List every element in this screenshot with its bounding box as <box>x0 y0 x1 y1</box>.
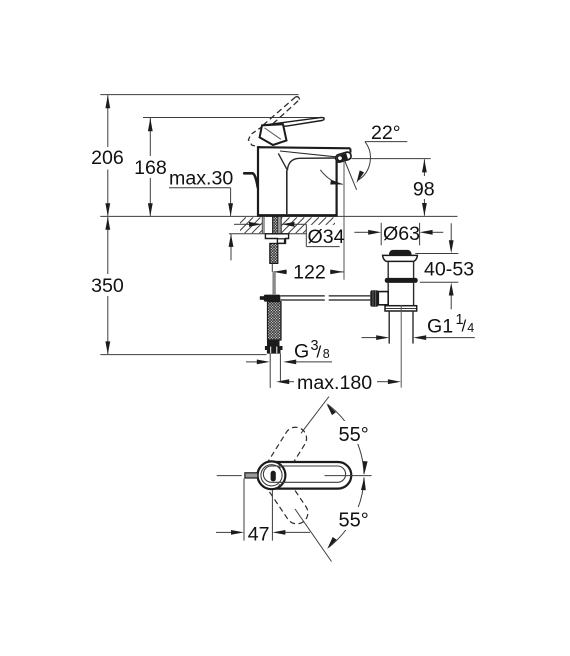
dim 40-53 <box>415 253 458 255</box>
svg-text:max.30: max.30 <box>169 168 233 190</box>
55 deg arc upper <box>328 405 364 475</box>
pop-up rod lever at faucet <box>244 173 258 187</box>
dim 206 vertical with arrows <box>107 95 109 147</box>
faucet body outline <box>258 147 350 215</box>
deck hatching <box>230 217 348 233</box>
drain body lower <box>387 283 389 306</box>
22 deg annotation <box>365 141 408 143</box>
top view right centerline <box>325 475 372 477</box>
dim 168 vertical with arrows <box>149 118 151 156</box>
O34 leader box <box>307 225 340 246</box>
dim max.180 <box>276 379 289 384</box>
top view 55deg leader lower <box>295 509 332 562</box>
spout vertical centerline <box>343 161 345 280</box>
svg-text:4: 4 <box>467 321 474 335</box>
svg-text:122: 122 <box>293 262 326 284</box>
svg-text:350: 350 <box>91 275 124 297</box>
top view cartridge mark <box>271 471 276 482</box>
svg-text:55°: 55° <box>339 510 369 532</box>
spout left underside edge <box>278 153 287 170</box>
dashed handle rotated up <box>261 423 311 485</box>
drain flange <box>383 255 418 261</box>
dashed handle base rotated outline <box>248 127 262 148</box>
top view handle inner <box>263 466 345 482</box>
dim 350 bottom reference line <box>100 354 266 356</box>
dim 350 vertical <box>107 217 109 274</box>
svg-text:47: 47 <box>248 523 270 545</box>
countertop deck top line <box>100 215 457 217</box>
top view 55deg leader upper <box>301 397 329 434</box>
top view handle outer <box>258 462 352 489</box>
drain lever boss <box>378 292 388 305</box>
dim max.30 lower arrow below deck <box>230 234 232 260</box>
22 deg arc left <box>320 170 342 185</box>
svg-text:8: 8 <box>323 347 330 361</box>
G3/8 arrows <box>246 361 257 363</box>
svg-text:98: 98 <box>413 178 435 200</box>
drain centerline <box>400 305 402 388</box>
faucet body base band <box>257 214 338 217</box>
svg-text:max.180: max.180 <box>297 372 372 394</box>
dim 98 <box>352 158 431 160</box>
threaded shank below deck <box>273 216 278 233</box>
hose braided upper <box>270 243 278 263</box>
drain lever knurled knob <box>370 290 378 307</box>
label 55 bottom <box>337 507 372 530</box>
rod pivot at hose <box>264 295 281 302</box>
aerator at spout tip <box>335 151 352 163</box>
top view base circle <box>258 461 286 489</box>
svg-text:40-53: 40-53 <box>424 258 474 280</box>
svg-text:206: 206 <box>91 147 124 169</box>
dim 122 <box>273 271 287 273</box>
top view pop-up knob <box>245 473 258 478</box>
drain collar <box>385 306 417 311</box>
top view inner circle <box>261 465 282 486</box>
hose thin segment <box>271 263 273 272</box>
dim line 168 top reference <box>143 117 325 119</box>
svg-text:168: 168 <box>134 157 167 179</box>
svg-text:22°: 22° <box>371 122 401 144</box>
drain body upper <box>387 261 389 278</box>
svg-text:Ø63: Ø63 <box>383 223 420 245</box>
label 55 top <box>337 421 372 444</box>
hose end tube <box>269 354 271 388</box>
mounting hole edges <box>261 216 263 233</box>
faucet body right edge <box>336 161 338 216</box>
svg-text:G: G <box>294 341 309 363</box>
spout inner underside curve <box>287 158 336 170</box>
22 deg arc right <box>359 142 371 180</box>
hose collar <box>267 340 280 346</box>
svg-text:55°: 55° <box>339 424 369 446</box>
hose end nut G3/8 <box>265 346 283 354</box>
spout upper inner line <box>280 151 342 157</box>
handle base <box>260 124 287 145</box>
dim O63 <box>380 223 382 246</box>
dim 47 <box>243 479 245 541</box>
svg-text:Ø34: Ø34 <box>308 226 345 248</box>
svg-text:G1: G1 <box>427 315 453 337</box>
handle lever blade <box>263 117 324 126</box>
55 deg arc lower <box>329 477 365 547</box>
dim O34 arrows <box>234 223 249 225</box>
shank washer <box>265 234 288 244</box>
drain tailpipe <box>388 311 390 343</box>
svg-text:/: / <box>317 342 322 361</box>
top view left centerline <box>217 475 242 477</box>
dim max.30 leader <box>169 187 231 189</box>
shank tube in hole <box>263 216 265 233</box>
hose braided lower <box>268 302 282 340</box>
svg-text:/: / <box>462 317 467 336</box>
dim line 206 top reference <box>100 94 298 96</box>
dashed lever raised position <box>263 97 300 131</box>
spray direction line 22deg <box>345 162 357 190</box>
drain O-ring <box>385 278 418 283</box>
drain horizontal rod <box>280 296 370 300</box>
dashed handle rotated down <box>261 467 313 529</box>
countertop deck bottom line <box>229 233 335 235</box>
G1 1/4 leader arrows <box>362 337 377 339</box>
drain plug top <box>389 250 412 255</box>
